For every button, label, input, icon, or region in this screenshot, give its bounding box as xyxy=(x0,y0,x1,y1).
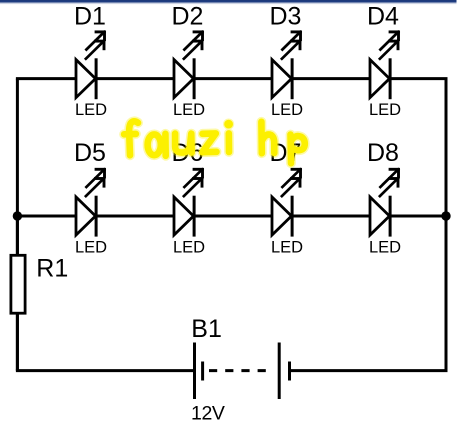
LED D2 xyxy=(174,31,204,100)
svg-text:D2: D2 xyxy=(172,3,204,31)
svg-text:LED: LED xyxy=(75,101,107,119)
resistor R1 xyxy=(11,216,25,371)
wire left rail xyxy=(16,79,19,371)
svg-text:D8: D8 xyxy=(367,139,399,167)
svg-text:R1: R1 xyxy=(36,254,68,282)
svg-text:LED: LED xyxy=(369,101,401,119)
svg-text:D3: D3 xyxy=(270,3,302,31)
junction node right xyxy=(441,211,450,220)
svg-text:12V: 12V xyxy=(191,403,225,425)
svg-text:LED: LED xyxy=(75,238,107,256)
LED D8 xyxy=(370,168,400,237)
svg-text:D1: D1 xyxy=(74,3,106,31)
wire top rail xyxy=(16,77,448,80)
LED D4 xyxy=(370,31,400,100)
LED D1 xyxy=(76,31,106,100)
svg-text:D5: D5 xyxy=(74,139,106,167)
LED D7 xyxy=(272,168,302,237)
top border bar xyxy=(0,0,457,5)
svg-text:D4: D4 xyxy=(367,3,399,31)
LED D5 xyxy=(76,168,106,237)
wire right rail xyxy=(445,79,448,371)
LED D6 xyxy=(174,168,204,237)
svg-text:LED: LED xyxy=(271,101,303,119)
svg-text:LED: LED xyxy=(173,101,205,119)
wire middle rail xyxy=(16,215,448,218)
svg-text:LED: LED xyxy=(369,238,401,256)
svg-text:LED: LED xyxy=(271,238,303,256)
svg-text:B1: B1 xyxy=(191,315,222,343)
battery B1 xyxy=(195,343,290,400)
LED D3 xyxy=(272,31,302,100)
wire bottom right segment xyxy=(290,369,448,372)
svg-text:LED: LED xyxy=(173,238,205,256)
junction node left xyxy=(13,211,22,220)
wire bottom left segment xyxy=(16,369,195,372)
watermark fauzi hp xyxy=(124,119,305,164)
